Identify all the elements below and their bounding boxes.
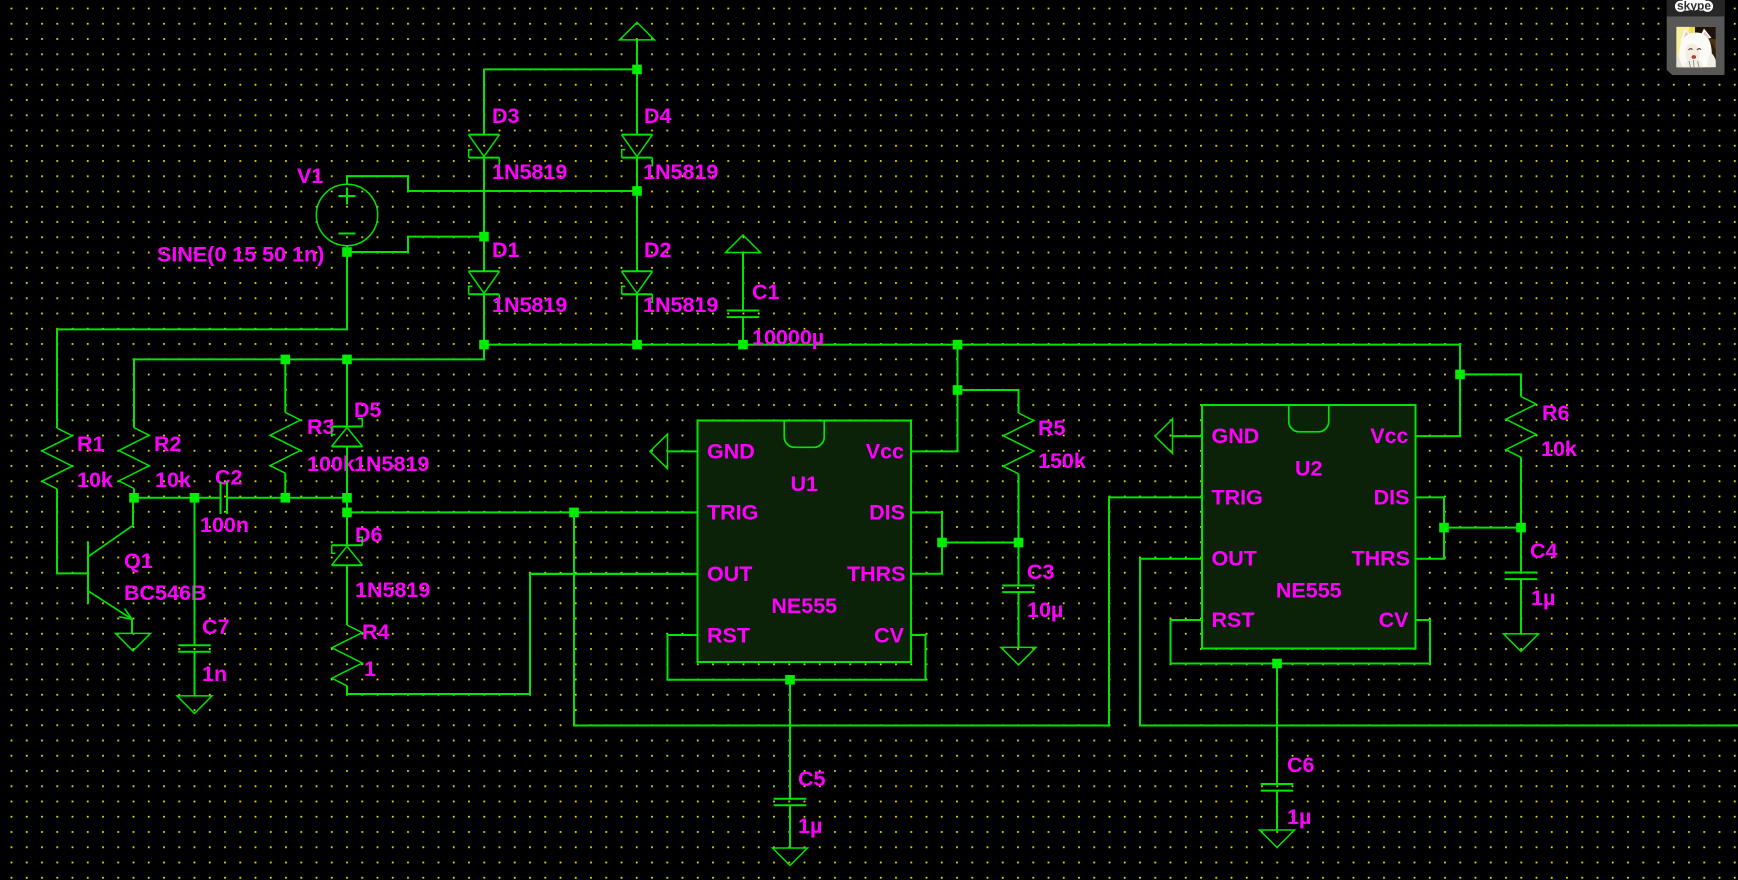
svg-text:U2: U2 (1295, 457, 1323, 481)
svg-text:CV: CV (1379, 608, 1410, 632)
wire U1 OUT to left net (530, 573, 698, 575)
svg-text:GND: GND (707, 439, 755, 463)
junction node at top of bridge (637,69) (632, 65, 642, 75)
skype logo wordmark (1675, 0, 1713, 13)
svg-text:TRIG: TRIG (1212, 485, 1263, 509)
wire U2 RST to CV tie (1171, 620, 1431, 664)
svg-text:TRIG: TRIG (707, 501, 758, 525)
wire R6 bottom to C4 node (1520, 457, 1522, 572)
wire flag to C1 (742, 253, 744, 311)
svg-text:OUT: OUT (707, 562, 752, 586)
svg-text:D1: D1 (492, 238, 520, 262)
skype overlay widget (top-right) (1667, 0, 1725, 75)
capacitor C6 1u (1261, 784, 1294, 791)
wire tie down to C5 (789, 680, 791, 799)
wire C3 to ground (1018, 592, 1020, 647)
diode D1 (1N5819) (469, 271, 500, 302)
svg-text:1N5819: 1N5819 (643, 160, 718, 184)
wire between node and TRIG rail (346, 498, 348, 513)
junction left rail at R3 (281, 493, 291, 503)
wire C5 to ground (789, 805, 791, 848)
svg-text:GND: GND (1212, 424, 1260, 448)
TRIG rail wire to U1 (347, 511, 698, 513)
junction V1+ to D2/D4 node (632, 186, 642, 196)
wire tie down to C6 (1276, 664, 1278, 785)
svg-text:C2: C2 (215, 466, 243, 490)
resistor R5 150k (1003, 413, 1033, 474)
wire U2 DIS to THRS (1416, 497, 1445, 558)
svg-text:R3: R3 (307, 415, 335, 439)
svg-text:1N5819: 1N5819 (354, 452, 429, 476)
capacitor C4 1u (1505, 573, 1538, 580)
wire R2 bottom to left node rail (133, 489, 135, 498)
junction TRIG rail at D6 (342, 508, 352, 518)
svg-text:R5: R5 (1038, 416, 1066, 440)
junction U2 Vcc column at R6 tap (1455, 370, 1465, 380)
wire D2 to bottom bus (636, 294, 638, 344)
svg-text:NE555: NE555 (1276, 579, 1342, 603)
junction rail at R3 column (281, 355, 291, 365)
wire U1 GND pin to arrow (668, 450, 698, 452)
transistor Q1 BC546B (88, 525, 133, 633)
ground at C3 (1001, 647, 1036, 665)
wire C1 to bus (742, 318, 744, 345)
junction U2 RST/CV tie at C6 (1272, 659, 1282, 669)
wire TRIG rail to D6 cathode (346, 512, 348, 545)
svg-text:U1: U1 (791, 472, 819, 496)
wire U2 tie to R6/C4 node (1444, 527, 1521, 529)
svg-text:1µ: 1µ (1287, 805, 1311, 829)
capacitor C5 1u (774, 799, 807, 806)
wire rail to R3 top (284, 359, 286, 412)
svg-text:V1: V1 (297, 164, 323, 188)
diode D6 (1N5819) (332, 537, 363, 565)
svg-text:D4: D4 (644, 104, 672, 128)
wire R5 bottom to C3 node (1018, 474, 1020, 586)
wire D4 cathode down to D2 (636, 158, 638, 272)
svg-text:DIS: DIS (1374, 485, 1410, 509)
ground at C5 (773, 848, 808, 866)
V1 minus sign (339, 233, 356, 235)
svg-text:1N5819: 1N5819 (643, 293, 718, 317)
svg-text:D3: D3 (492, 104, 520, 128)
wire C7 to ground (194, 652, 196, 696)
capacitor C3 10u (1002, 586, 1035, 593)
junction DIS/THRS tie (937, 538, 947, 548)
wire Q1 collector to left rail (132, 498, 134, 526)
V1 plus sign (339, 188, 356, 205)
svg-text:1µ: 1µ (1531, 586, 1555, 610)
ground at Q1 emitter (116, 633, 151, 651)
wire top junction left to D3 column (484, 68, 637, 70)
capacitor C7 1n (178, 645, 211, 652)
svg-text:NE555: NE555 (771, 594, 837, 618)
svg-text:C7: C7 (202, 615, 230, 639)
svg-text:skype: skype (1677, 0, 1711, 13)
ground at C6 (1260, 830, 1295, 848)
svg-text:CV: CV (874, 623, 905, 647)
wire Vcc column to R5 top (958, 390, 1019, 413)
svg-text:OUT: OUT (1212, 547, 1257, 571)
resistor R3 100k (270, 412, 300, 473)
junction bus at C1 column (738, 340, 748, 350)
ground at C7 (177, 696, 212, 714)
diode D4 (1N5819) (622, 135, 653, 166)
wire D6 anode to R4 (346, 565, 348, 625)
wire D1 to bottom bus (483, 294, 485, 344)
svg-text:C6: C6 (1287, 753, 1315, 777)
wire V1 minus down-left rail (57, 246, 347, 330)
wire V1- rail down to R1 (56, 329, 58, 428)
wire R1 bottom to Q1 base (57, 489, 88, 574)
capacitor C2 100n (221, 482, 228, 515)
svg-text:D6: D6 (355, 523, 383, 547)
wire flag to D4 column (636, 40, 638, 135)
wire U1 Vcc pin to bus (911, 345, 958, 452)
junction bus at U1 Vcc column (953, 340, 963, 350)
resistor R1 10k (42, 428, 72, 489)
svg-text:THRS: THRS (1351, 547, 1410, 571)
junction bus at D1 column (479, 340, 489, 350)
junction TRIG rail at x=574 (569, 508, 579, 518)
junction bus at D2 column (632, 340, 642, 350)
junction left rail at C7 (190, 493, 200, 503)
skype panel corner notch (1667, 70, 1673, 75)
svg-text:1: 1 (364, 657, 376, 681)
svg-text:1N5819: 1N5819 (492, 293, 567, 317)
skype notification bar background (1667, 0, 1725, 16)
U2 GND left-arrow flag (1155, 419, 1173, 454)
svg-text:10µ: 10µ (1027, 598, 1063, 622)
long wire U1 TRIG to U2 TRIG (574, 497, 1202, 725)
junction left rail at D5 column (342, 493, 352, 503)
svg-text:150k: 150k (1038, 449, 1086, 473)
svg-text:THRS: THRS (847, 562, 906, 586)
power flag (top, above D4) (620, 22, 655, 40)
svg-text:RST: RST (707, 623, 750, 647)
junction R5/C3 node (1014, 538, 1024, 548)
junction V1- to D1/D3 node (479, 232, 489, 242)
svg-text:R1: R1 (77, 432, 105, 456)
diode D3 (1N5819) (469, 135, 500, 166)
svg-text:SINE(0 15 50 1n): SINE(0 15 50 1n) (157, 243, 324, 267)
svg-text:DIS: DIS (869, 501, 905, 525)
wire V1 minus to D1/D3 node (347, 237, 484, 252)
wire U2 Vcc pin to bus corner (1416, 374, 1461, 436)
svg-text:R2: R2 (154, 432, 182, 456)
svg-text:1n: 1n (202, 662, 227, 686)
wire U2 OUT to right edge (1140, 559, 1738, 726)
wire V1 plus to bridge (D2/D4 node) (347, 176, 637, 191)
svg-text:1N5819: 1N5819 (355, 578, 430, 602)
svg-text:1µ: 1µ (798, 814, 822, 838)
ground at C4 (1504, 634, 1539, 652)
junction left rail at R2 (129, 493, 139, 503)
svg-text:D2: D2 (644, 238, 672, 262)
svg-text:Q1: Q1 (124, 549, 153, 573)
svg-text:1N5819: 1N5819 (492, 160, 567, 184)
junction rail at D5 column (342, 355, 352, 365)
secondary rail wire to R2/R3/D5 (134, 345, 484, 428)
svg-text:10k: 10k (1541, 437, 1577, 461)
wire Vcc column to R6 top (1460, 374, 1521, 396)
svg-text:RST: RST (1212, 608, 1255, 632)
avatar image (anime character) (1676, 27, 1716, 68)
wire U2 GND pin to arrow (1173, 435, 1203, 437)
svg-text:10k: 10k (155, 468, 191, 492)
resistor R2 10k (119, 428, 149, 489)
svg-text:R6: R6 (1542, 401, 1570, 425)
svg-text:C5: C5 (798, 767, 826, 791)
svg-text:10k: 10k (77, 468, 113, 492)
svg-text:100n: 100n (200, 513, 249, 537)
svg-text:Vcc: Vcc (1370, 424, 1408, 448)
wire U1 RST to CV tie (668, 635, 926, 680)
power flag above C1 (726, 235, 761, 253)
wire R3 bottom to left rail (284, 473, 286, 498)
svg-text:Vcc: Vcc (866, 439, 904, 463)
op-amp/timer U2 NE555 box (1202, 405, 1416, 649)
wire C4 to ground (1520, 579, 1522, 634)
capacitor C1 10000u (727, 311, 760, 318)
svg-text:C4: C4 (1530, 539, 1558, 563)
U1 GND left-arrow flag (650, 434, 668, 469)
wire U1 DIS to THRS (911, 512, 942, 573)
junction R6/C4 node (1516, 523, 1526, 533)
wire D5 anode to left rail (346, 447, 348, 498)
wire R4 bottom to OUT net (347, 574, 698, 694)
diode D5 (1N5819) (332, 419, 363, 447)
svg-text:C1: C1 (752, 280, 780, 304)
junction at V1 minus terminal (342, 247, 352, 257)
resistor R4 1 (332, 625, 362, 686)
diode D2 (1N5819) (622, 271, 653, 302)
svg-text:C3: C3 (1027, 560, 1055, 584)
wire down to D3 (483, 69, 485, 134)
voltage source V1 circle (316, 184, 377, 245)
junction RST/CV tie at C5 (785, 675, 795, 685)
main positive bus wire y=344.6 (484, 345, 1460, 375)
junction U2 DIS/THRS tie (1439, 523, 1449, 533)
wire left rail to C7 (194, 498, 196, 645)
wire C6 to ground (1276, 791, 1278, 830)
svg-text:R4: R4 (362, 620, 390, 644)
junction U1 Vcc column at R5 tap (953, 385, 963, 395)
skype contact panel background (1667, 16, 1725, 75)
wire rail to D5 cathode (346, 359, 348, 426)
wire D3 cathode down to node (483, 158, 485, 272)
wire DIS/THRS tie to R5/C3 node (942, 542, 1019, 544)
op-amp/timer U1 NE555 box (698, 421, 912, 663)
svg-text:10000µ: 10000µ (752, 326, 824, 350)
resistor R6 10k (1506, 397, 1536, 458)
left node rail y=497.8 (134, 497, 347, 499)
